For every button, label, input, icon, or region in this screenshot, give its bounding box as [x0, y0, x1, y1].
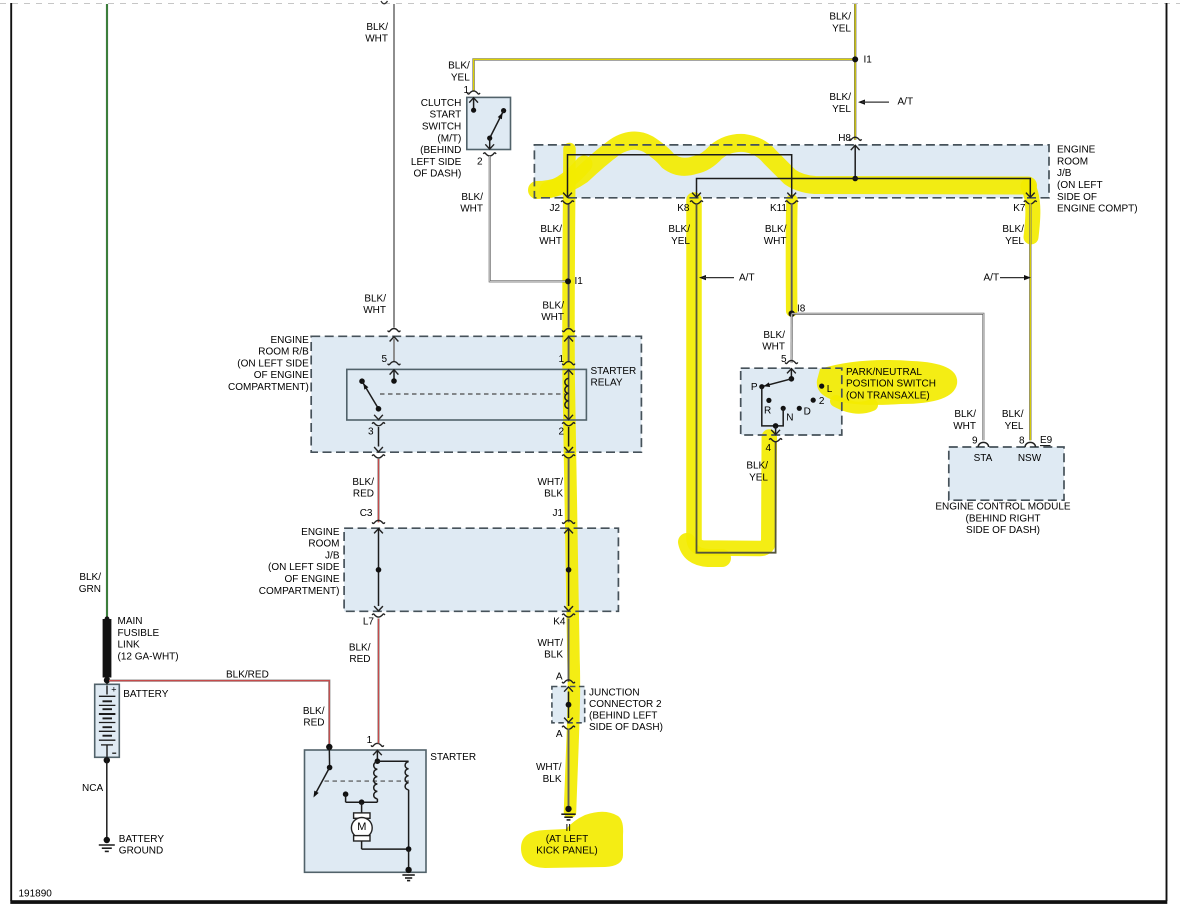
svg-text:J2: J2 — [549, 203, 560, 214]
wire BLK/WHT K11 to I8 — [791, 203, 793, 313]
starter motor tap node — [359, 799, 365, 805]
svg-text:A/T: A/T — [984, 272, 1000, 283]
starter hold-in coil — [405, 762, 408, 790]
svg-text:M: M — [357, 821, 366, 833]
svg-text:BLK/RED: BLK/RED — [352, 477, 374, 500]
kick panel ground — [565, 806, 571, 812]
wire BLK/RED battery to starter — [109, 681, 329, 747]
A/T arrow at BLK/YEL — [858, 99, 865, 104]
starter switch feed wire — [328, 747, 330, 768]
A/T arrow at K7 — [1000, 277, 1026, 279]
pin 3 wire inside dashed box — [378, 427, 380, 447]
wire BLK/WHT I8 to PNP pin5 — [791, 314, 793, 363]
A/T arrow at K8 — [699, 275, 706, 280]
svg-text:A: A — [556, 729, 563, 740]
relay pin 2 exit — [564, 415, 573, 420]
svg-text:STARTER: STARTER — [430, 752, 476, 763]
svg-text:A/T: A/T — [739, 272, 755, 283]
svg-text:5: 5 — [381, 354, 387, 365]
highlighter park/neutral label — [817, 360, 957, 405]
svg-text:BLK/YEL: BLK/YEL — [1002, 224, 1024, 247]
node I8 — [789, 311, 795, 317]
svg-text:BLK/WHT: BLK/WHT — [365, 22, 388, 45]
svg-text:9: 9 — [972, 436, 978, 447]
relay pin 3 exit — [374, 415, 383, 420]
wire BLK/YEL top horizontal — [474, 59, 856, 91]
svg-text:1: 1 — [558, 354, 564, 365]
svg-text:D: D — [804, 406, 811, 417]
svg-text:II: II — [566, 823, 572, 834]
svg-text:L7: L7 — [363, 616, 375, 627]
svg-text:+: + — [111, 684, 116, 694]
svg-text:BLK/RED: BLK/RED — [226, 669, 269, 680]
PNP contact D — [797, 406, 802, 411]
svg-text:BLK/WHT: BLK/WHT — [764, 224, 787, 247]
svg-text:L: L — [827, 384, 833, 395]
node at fusible link top — [105, 616, 110, 621]
starter relay box border — [347, 369, 587, 420]
svg-text:BLK/YEL: BLK/YEL — [448, 61, 470, 84]
engine control module box fill — [949, 447, 1064, 500]
starter switch pivot — [327, 765, 333, 771]
svg-text:BLK/WHT: BLK/WHT — [541, 300, 564, 323]
clutch switch internal — [473, 97, 475, 110]
engine room J/B (lower) box fill — [344, 528, 618, 611]
starter pull-in coil — [374, 762, 378, 799]
starter motor M1 — [361, 802, 363, 813]
page border top (dashed) — [0, 3, 1180, 5]
svg-text:I1: I1 — [575, 276, 584, 287]
main fusible link — [103, 619, 112, 678]
svg-text:K7: K7 — [1013, 203, 1026, 214]
wire BLK/YEL K7 to ECM NSW — [1029, 203, 1031, 440]
PNP switch arm to P — [762, 379, 792, 387]
svg-text:BLK/RED: BLK/RED — [303, 706, 325, 729]
wire BLK/YEL K8 loop to PNP pin4 — [697, 203, 776, 552]
J/B exit connectors — [561, 201, 574, 204]
junction connector 2 box fill — [552, 687, 585, 723]
svg-text:R: R — [764, 406, 771, 417]
relay pin 1 connectors — [568, 338, 570, 361]
svg-text:BLK/YEL: BLK/YEL — [668, 224, 690, 247]
starter relay coil — [568, 369, 570, 420]
wire BLK/RED pin3 to C3 — [377, 459, 379, 522]
PNP contact N — [781, 406, 786, 411]
pin 5 wire inside dashed box — [393, 338, 395, 361]
starter relay box fill — [347, 369, 587, 420]
PNP pin5 internal — [790, 368, 792, 379]
R/B pin 5 connector at dashed box — [388, 329, 401, 332]
PNP contact 2 — [811, 398, 816, 403]
park/neutral position switch box fill — [741, 368, 842, 435]
svg-text:2: 2 — [558, 427, 564, 438]
engine control module box border — [949, 447, 1064, 500]
svg-text:NCA: NCA — [82, 783, 103, 794]
svg-text:K4: K4 — [553, 616, 566, 627]
starter switch arm — [316, 768, 330, 794]
wire BLK/YEL from page top to I1 — [854, 4, 856, 59]
svg-text:C3: C3 — [360, 508, 373, 519]
junction connector 2 internal — [568, 692, 570, 719]
PNP contact L — [819, 384, 824, 389]
C3-L7 internal wire — [378, 528, 380, 606]
svg-text:I1: I1 — [864, 55, 873, 66]
battery box fill — [95, 684, 120, 757]
engine room J/B (upper) box border — [534, 145, 1049, 198]
svg-text:A: A — [556, 672, 563, 683]
starter box fill — [305, 750, 427, 872]
starter fixed contact — [343, 791, 349, 797]
engine room J/B (upper) box fill — [534, 145, 1049, 198]
PNP contact R — [766, 398, 771, 403]
svg-text:2: 2 — [819, 396, 825, 407]
svg-text:BLK/WHT: BLK/WHT — [460, 192, 483, 215]
svg-text:BLK/YEL: BLK/YEL — [829, 92, 851, 115]
node battery positive junction — [104, 677, 110, 683]
svg-text:E9: E9 — [1040, 435, 1053, 446]
svg-text:A/T: A/T — [898, 97, 914, 108]
J/B internal wire H8 node — [854, 145, 856, 179]
highlighter K11 wire — [786, 200, 798, 311]
J1-K4 internal wire — [568, 528, 570, 606]
page border bottom — [10, 900, 1167, 904]
svg-text:K8: K8 — [677, 203, 690, 214]
highlighter main column J2-I1-relay-J1-K4-ground — [568, 149, 573, 812]
svg-text:BLK/WHT: BLK/WHT — [953, 409, 976, 432]
battery negative node — [104, 757, 110, 763]
J/B internal bus upper — [568, 155, 792, 198]
svg-text:3: 3 — [368, 427, 374, 438]
cut glyph at page top — [381, 1, 388, 4]
svg-text:1: 1 — [367, 735, 373, 746]
wire BLK/WHT I8 to ECM STA — [792, 314, 984, 441]
svg-text:BATTERY: BATTERY — [123, 689, 169, 700]
wire BLK/GRN from top to fusible link — [106, 4, 108, 620]
svg-text:BLK/YEL: BLK/YEL — [829, 12, 851, 35]
starter mechanical link (dashed) — [325, 780, 410, 782]
park/neutral position switch box border — [741, 368, 842, 435]
starter pin1 internal wire — [376, 750, 378, 761]
svg-text:BATTERYGROUND: BATTERYGROUND — [119, 834, 165, 857]
wire BLK/WHT clutch pin2 to I1 — [490, 156, 565, 281]
svg-text:BLK/YEL: BLK/YEL — [746, 461, 768, 484]
svg-text:8: 8 — [1019, 436, 1025, 447]
clutch start switch box fill — [467, 97, 511, 149]
svg-text:BLK/WHT: BLK/WHT — [363, 293, 386, 316]
junction connector 2 box border — [552, 687, 585, 723]
svg-text:STA: STA — [974, 453, 993, 464]
svg-text:NSW: NSW — [1018, 453, 1042, 464]
wire fusible link to battery — [106, 678, 108, 685]
svg-text:2: 2 — [477, 156, 483, 167]
clutch switch arm — [490, 111, 504, 139]
wire WHT/BLK K4 to junction connector — [568, 619, 570, 682]
svg-text:191890: 191890 — [19, 889, 53, 900]
highlighter band across engine room J/B — [537, 141, 1028, 190]
node I1 lower — [565, 278, 571, 284]
highlighter K8 loop — [694, 200, 769, 549]
wire WHT/BLK to kick panel ground — [568, 729, 570, 807]
engine room J/B (lower) box border — [344, 528, 618, 611]
node I1 top — [852, 56, 858, 62]
page border left — [10, 3, 12, 901]
starter relay switch — [359, 378, 365, 384]
svg-text:J1: J1 — [552, 508, 563, 519]
svg-text:4: 4 — [765, 443, 771, 454]
svg-text:BLK/WHT: BLK/WHT — [762, 330, 785, 353]
node starter terminal — [326, 744, 332, 750]
relay pin 5 internal — [393, 369, 395, 381]
svg-text:K11: K11 — [770, 203, 787, 214]
relay mechanical link dashed — [380, 393, 565, 395]
page border right — [1166, 3, 1168, 901]
engine room R/B box fill — [311, 336, 641, 452]
PNP P-N to pin4 wiring — [762, 387, 783, 426]
starter box border — [305, 750, 427, 872]
starter internal ground — [405, 867, 411, 873]
starter pin 1 connector — [371, 743, 384, 746]
wire BLK/WHT left column from page top — [393, 4, 395, 328]
svg-text:H8: H8 — [838, 133, 851, 144]
starter motor ground wire — [362, 848, 409, 850]
svg-text:N: N — [786, 412, 793, 423]
wire BLK/YEL I1 to H8 — [854, 59, 856, 139]
J/B internal bus lower — [697, 179, 1031, 198]
svg-text:P: P — [751, 382, 758, 393]
clutch start switch box border — [467, 97, 511, 149]
battery B1 — [106, 686, 108, 695]
engine room R/B box border — [311, 336, 641, 452]
PNP contact P — [759, 384, 764, 389]
highlighter blob at left kick panel — [521, 812, 623, 868]
battery ground symbol — [104, 837, 110, 843]
svg-text:BLK/GRN: BLK/GRN — [79, 572, 101, 595]
wire NCA battery to ground — [106, 757, 108, 840]
starter contact to coil wire — [346, 801, 378, 803]
wire WHT/BLK pin2 to J1 — [568, 459, 570, 522]
svg-text:BLK/YEL: BLK/YEL — [1002, 409, 1024, 432]
svg-text:BLK/RED: BLK/RED — [349, 642, 371, 665]
wire BLK/WHT J2 to R/B pin1 — [568, 203, 570, 327]
battery box border — [95, 684, 120, 757]
svg-text:BLK/WHT: BLK/WHT — [539, 224, 562, 247]
pin 2 wire inside dashed box — [568, 427, 570, 447]
highlighter tail down K7 — [1028, 186, 1033, 237]
wire BLK/RED L7 to starter pin1 — [377, 619, 379, 744]
